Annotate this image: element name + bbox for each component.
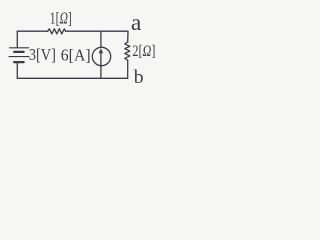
battery E1: long plate (second cell, +)	[9, 56, 29, 58]
wire: middle branch upper (top wire junction to current source)	[100, 31, 102, 47]
wire: middle branch lower (current source to bottom wire)	[100, 66, 102, 79]
current source IS1: arrowhead (up)	[99, 48, 104, 53]
wire: left vertical upper (top corner to battery)	[16, 31, 18, 47]
wire: top-left horizontal segment	[17, 30, 47, 32]
wire: right vertical upper (top corner to resistor R2)	[127, 31, 129, 42]
battery E1 3[V]: long plate (top, +)	[10, 47, 29, 49]
wire: right vertical lower (resistor R2 to bottom corner)	[127, 60, 129, 78]
svg-text:6[A]: 6[A]	[61, 45, 91, 64]
svg-text:2[Ω]: 2[Ω]	[132, 43, 155, 60]
svg-text:b: b	[134, 68, 144, 88]
wire: top-right horizontal segment	[66, 30, 128, 32]
wire: left vertical lower (battery to bottom corner)	[16, 63, 18, 79]
resistor R2 (2 ohm) vertical zigzag	[125, 42, 130, 60]
current source IS1 6[A]: circle	[92, 47, 110, 65]
svg-text:1[Ω]: 1[Ω]	[50, 8, 72, 27]
current source IS1: arrow shaft (pointing up)	[100, 53, 102, 65]
wire: bottom horizontal segment	[17, 77, 127, 79]
svg-text:a: a	[131, 10, 142, 35]
battery E1: short thick plate (bottom, -)	[14, 61, 23, 63]
svg-text:3[V]: 3[V]	[29, 45, 56, 64]
battery E1: short thick plate	[14, 51, 23, 53]
resistor R1 (1 ohm) zigzag on top wire	[48, 29, 66, 34]
